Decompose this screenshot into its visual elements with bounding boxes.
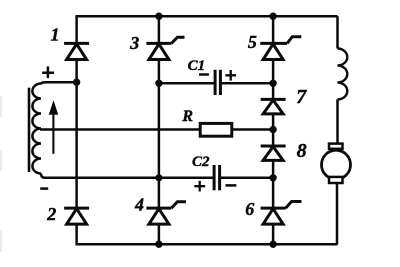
wire right column bottom segment	[272, 224, 275, 244]
svg-text:8: 8	[297, 140, 307, 162]
wire right column seg 5-7	[272, 59, 275, 99]
C2 plus	[194, 181, 205, 192]
wire middle column bottom segment	[158, 224, 161, 244]
capacitor C1	[215, 70, 220, 95]
wire motor to bottom bus	[336, 183, 339, 244]
motor M armature	[322, 150, 351, 179]
capacitor C2	[214, 165, 220, 190]
svg-text:3: 3	[129, 33, 139, 53]
transformer winding L1	[32, 84, 41, 174]
wire inductor to motor	[336, 100, 339, 144]
thyristor 3	[146, 37, 184, 59]
node C2 left	[155, 174, 162, 181]
wire left column bottom segment	[75, 224, 78, 244]
wire top bus	[76, 15, 338, 18]
diode 7	[261, 99, 286, 114]
transformer core	[28, 88, 31, 172]
diode 8	[261, 146, 286, 160]
wire center tap to resistor	[40, 128, 199, 131]
wire bottom bus	[76, 243, 338, 246]
wire middle column top segment	[158, 16, 161, 43]
svg-text:C2: C2	[192, 154, 210, 170]
thyristor 6	[261, 202, 302, 225]
svg-text:C1: C1	[188, 58, 206, 74]
thyristor 5	[260, 37, 301, 60]
svg-text:R: R	[181, 108, 193, 125]
node top-mid	[155, 13, 162, 20]
node C1 left	[155, 80, 162, 87]
svg-text:4: 4	[134, 195, 144, 215]
C1 plus	[225, 70, 236, 81]
EMF arrow	[52, 110, 54, 154]
wire transformer plus lead	[41, 82, 77, 84]
scan artifact marks left edge	[0, 96, 2, 252]
wire transformer bottom lead / C2 row left	[41, 174, 214, 178]
resistor R	[200, 123, 232, 136]
thyristor 4	[146, 202, 186, 224]
diode 2	[64, 208, 89, 224]
wire far-right top segment to inductor	[336, 16, 339, 48]
node C1 right	[269, 80, 276, 87]
node C2 right	[269, 174, 276, 181]
diode 1	[64, 43, 89, 59]
wire left column top segment	[75, 16, 78, 43]
svg-text:2: 2	[46, 204, 56, 224]
motor brush top	[329, 144, 343, 149]
wire right column seg 8-6	[272, 160, 275, 208]
minus sign transformer	[40, 187, 48, 190]
motor brush bottom	[329, 177, 343, 183]
svg-text:7: 7	[296, 86, 307, 108]
wire right column top segment	[272, 16, 275, 43]
wire right column seg 7-8	[272, 114, 275, 146]
plus sign transformer	[42, 66, 54, 78]
wire C2 row right	[220, 177, 273, 180]
inductor L2	[338, 49, 348, 100]
svg-text:5: 5	[248, 32, 257, 52]
wire C1 row right	[221, 82, 273, 85]
wire C1 row left	[159, 82, 215, 85]
C2 minus	[226, 184, 237, 187]
node bottom-right	[269, 241, 276, 248]
svg-text:1: 1	[51, 25, 60, 45]
wire left column mid segment	[75, 59, 78, 208]
wire middle column mid segment	[158, 59, 161, 208]
node top-right	[269, 13, 276, 20]
svg-text:6: 6	[245, 199, 254, 219]
C1 minus	[199, 73, 209, 76]
node bottom-mid	[155, 241, 162, 248]
wire resistor to right column	[232, 128, 273, 131]
node R right	[269, 126, 276, 133]
node plus lead	[73, 79, 80, 86]
